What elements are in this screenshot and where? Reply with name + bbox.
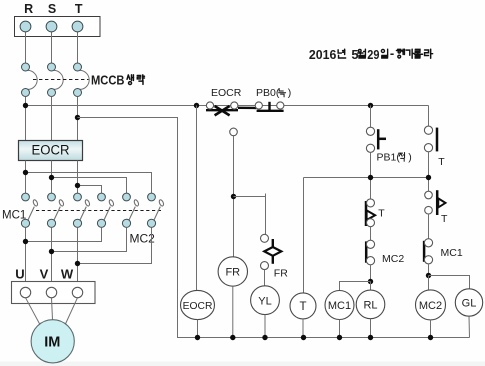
svg-text:2016: 2016 [309,47,336,62]
svg-text:MCCB: MCCB [91,72,125,87]
svg-text:PB1(: PB1( [377,152,401,164]
svg-text:FR: FR [274,267,288,279]
svg-text:T: T [75,2,83,16]
svg-text:V: V [40,267,49,282]
svg-text:29: 29 [367,47,379,62]
svg-text:R: R [24,2,33,16]
svg-text:IM: IM [44,334,60,350]
svg-text:YL: YL [258,295,271,307]
svg-text:MC1: MC1 [441,247,463,259]
svg-text:MC1: MC1 [2,210,26,222]
svg-text:EOCR: EOCR [211,87,242,99]
svg-text:): ) [288,87,292,99]
svg-text:MC2: MC2 [419,300,442,312]
svg-text:5: 5 [351,47,358,62]
svg-text:-: - [390,46,394,61]
svg-text:T: T [299,301,306,313]
svg-text:U: U [15,267,24,282]
svg-text:MC1: MC1 [328,300,351,312]
svg-text:EOCR: EOCR [183,301,213,312]
svg-text:T: T [378,208,385,220]
svg-text:T: T [438,156,445,168]
svg-text:): ) [408,152,412,164]
svg-text:FR: FR [225,267,240,279]
svg-text:W: W [61,267,74,282]
svg-text:T: T [441,213,448,225]
svg-text:S: S [48,2,56,16]
svg-text:PB0(: PB0( [256,87,280,99]
svg-text:MC2: MC2 [382,253,404,265]
svg-text:GL: GL [462,298,477,310]
svg-text:EOCR: EOCR [32,143,70,158]
svg-text:RL: RL [363,300,377,312]
